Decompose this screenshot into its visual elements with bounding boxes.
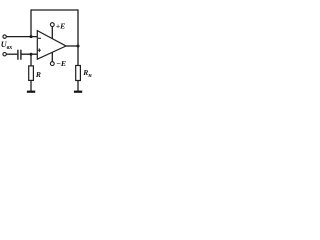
terminal -E bbox=[50, 62, 54, 66]
svg-text:Uвх: Uвх bbox=[1, 40, 13, 51]
capacitor C1 plates bbox=[18, 50, 21, 60]
svg-text:+E: +E bbox=[56, 21, 66, 30]
wire feedback left vertical bbox=[30, 9, 32, 36]
wire -E supply bbox=[51, 52, 53, 61]
wire +E supply bbox=[51, 27, 53, 40]
terminal +E bbox=[50, 23, 54, 27]
node inverting junction bbox=[30, 35, 33, 38]
wire Rn bottom bbox=[77, 80, 79, 91]
wire R bottom bbox=[30, 80, 32, 91]
wire inverting input bbox=[6, 36, 37, 38]
wire feedback top bbox=[31, 9, 78, 11]
wire output bbox=[66, 45, 79, 47]
terminal Uin top bbox=[3, 35, 6, 38]
wire noninverting input right of capacitor bbox=[21, 53, 37, 55]
ground right bbox=[74, 91, 82, 93]
wire R top bbox=[30, 54, 32, 66]
resistor Rn bbox=[76, 66, 81, 81]
resistor R bbox=[29, 66, 34, 81]
svg-text:R: R bbox=[35, 70, 41, 79]
op-amp U1 bbox=[37, 31, 66, 60]
svg-text:Rн: Rн bbox=[82, 68, 92, 79]
wire feedback right vertical bbox=[77, 9, 79, 66]
node noninverting junction bbox=[30, 53, 33, 56]
node output junction bbox=[77, 45, 80, 48]
op-amp minus sign bbox=[38, 37, 41, 39]
terminal Uin bottom bbox=[3, 53, 6, 56]
svg-text:−E: −E bbox=[56, 59, 66, 68]
op-amp plus sign bbox=[38, 48, 41, 52]
wire noninverting input left of capacitor bbox=[6, 53, 17, 55]
ground left bbox=[27, 91, 35, 93]
